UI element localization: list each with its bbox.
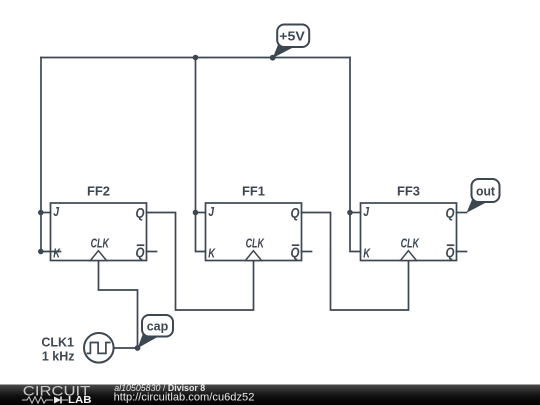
wire FF2 Qbar stub [147, 251, 157, 253]
wire FF1 Q to FF3 CLK [302, 213, 409, 311]
svg-text:+5V: +5V [279, 29, 305, 44]
svg-text:K: K [208, 246, 216, 261]
svg-text:J: J [53, 204, 59, 219]
svg-text:J: J [208, 204, 214, 219]
svg-text:Q: Q [291, 206, 300, 221]
wire FF2 CLK to cap node [99, 261, 138, 349]
wire FF1 branch drop [196, 58, 206, 252]
svg-text:1 kHz: 1 kHz [42, 350, 75, 364]
svg-text:K: K [53, 246, 61, 261]
flip-flop FF3 body [361, 184, 457, 261]
wire FF3 branch drop [350, 58, 361, 252]
svg-text:CLK1: CLK1 [41, 336, 74, 350]
wire FF3 Q stub to out [457, 212, 467, 214]
svg-text:Q: Q [136, 245, 145, 260]
svg-text:Q: Q [446, 245, 455, 260]
wire FF2 Q to FF1 CLK [147, 213, 254, 311]
flip-flop FF1 body [206, 184, 302, 261]
svg-text:J: J [363, 204, 369, 219]
svg-text:CLK: CLK [401, 236, 421, 251]
svg-text:FF2: FF2 [87, 184, 110, 199]
node FF1 J [193, 210, 199, 216]
node junction on +5V rail at FF1 branch [193, 55, 199, 61]
wire FF2 J stub [41, 212, 51, 214]
wire CLK1 to cap node [114, 347, 138, 349]
net label cap [138, 315, 174, 348]
wire FF1 Qbar stub [302, 251, 312, 253]
wire FF3 J stub [350, 212, 361, 214]
wire top +5V rail [41, 57, 350, 59]
svg-text:http://circuitlab.com/cu6dz52: http://circuitlab.com/cu6dz52 [114, 392, 255, 404]
svg-text:cap: cap [147, 320, 169, 334]
node FF2 K [38, 249, 44, 255]
net label +5V [273, 25, 310, 59]
wire FF1 J stub [196, 212, 206, 214]
svg-text:FF1: FF1 [242, 184, 265, 199]
net label out [467, 179, 500, 213]
svg-text:Q: Q [446, 206, 455, 221]
svg-text:Q: Q [291, 245, 300, 260]
node +5V anchor [270, 55, 276, 61]
node FF2 J [38, 210, 44, 216]
footer bar [0, 383, 540, 405]
clock source CLK1 [41, 333, 113, 364]
logo resistor + diode squiggle [22, 397, 53, 403]
svg-text:LAB: LAB [68, 394, 92, 405]
wire FF3 Qbar stub [457, 251, 467, 253]
svg-text:out: out [476, 185, 496, 199]
svg-text:FF3: FF3 [397, 184, 420, 199]
flip-flop FF2 body [51, 184, 147, 261]
wire left drop to FF2 [40, 58, 42, 252]
node cap junction [135, 345, 141, 351]
svg-text:K: K [363, 246, 371, 261]
node FF3 J [347, 210, 353, 216]
wire FF2 K stub (crosses K label) [41, 251, 61, 253]
svg-text:CLK: CLK [91, 236, 111, 251]
svg-text:Q: Q [136, 206, 145, 221]
svg-text:CLK: CLK [246, 236, 266, 251]
